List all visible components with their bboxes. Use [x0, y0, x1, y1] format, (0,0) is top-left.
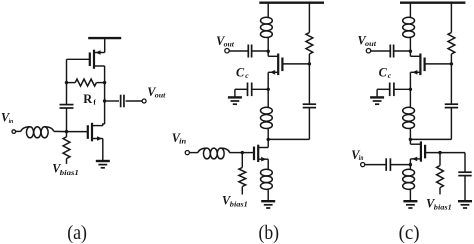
svg-text:c: c — [245, 71, 249, 80]
svg-text:f: f — [93, 97, 96, 106]
svg-text:bias1: bias1 — [230, 201, 248, 209]
svg-text:in: in — [359, 154, 364, 162]
svg-text:(c): (c) — [399, 222, 420, 244]
svg-text:bias1: bias1 — [434, 203, 452, 211]
svg-text:out: out — [155, 92, 167, 100]
svg-text:out: out — [224, 40, 235, 48]
svg-text:R: R — [83, 92, 93, 106]
svg-text:c: c — [388, 71, 392, 80]
svg-text:in: in — [179, 138, 186, 146]
svg-text:(a): (a) — [67, 222, 87, 244]
svg-text:out: out — [365, 40, 377, 48]
svg-text:in: in — [9, 118, 14, 125]
svg-text:(b): (b) — [259, 222, 280, 244]
svg-text:bias1: bias1 — [60, 169, 79, 177]
svg-text:C: C — [379, 65, 388, 79]
svg-text:C: C — [236, 65, 245, 79]
